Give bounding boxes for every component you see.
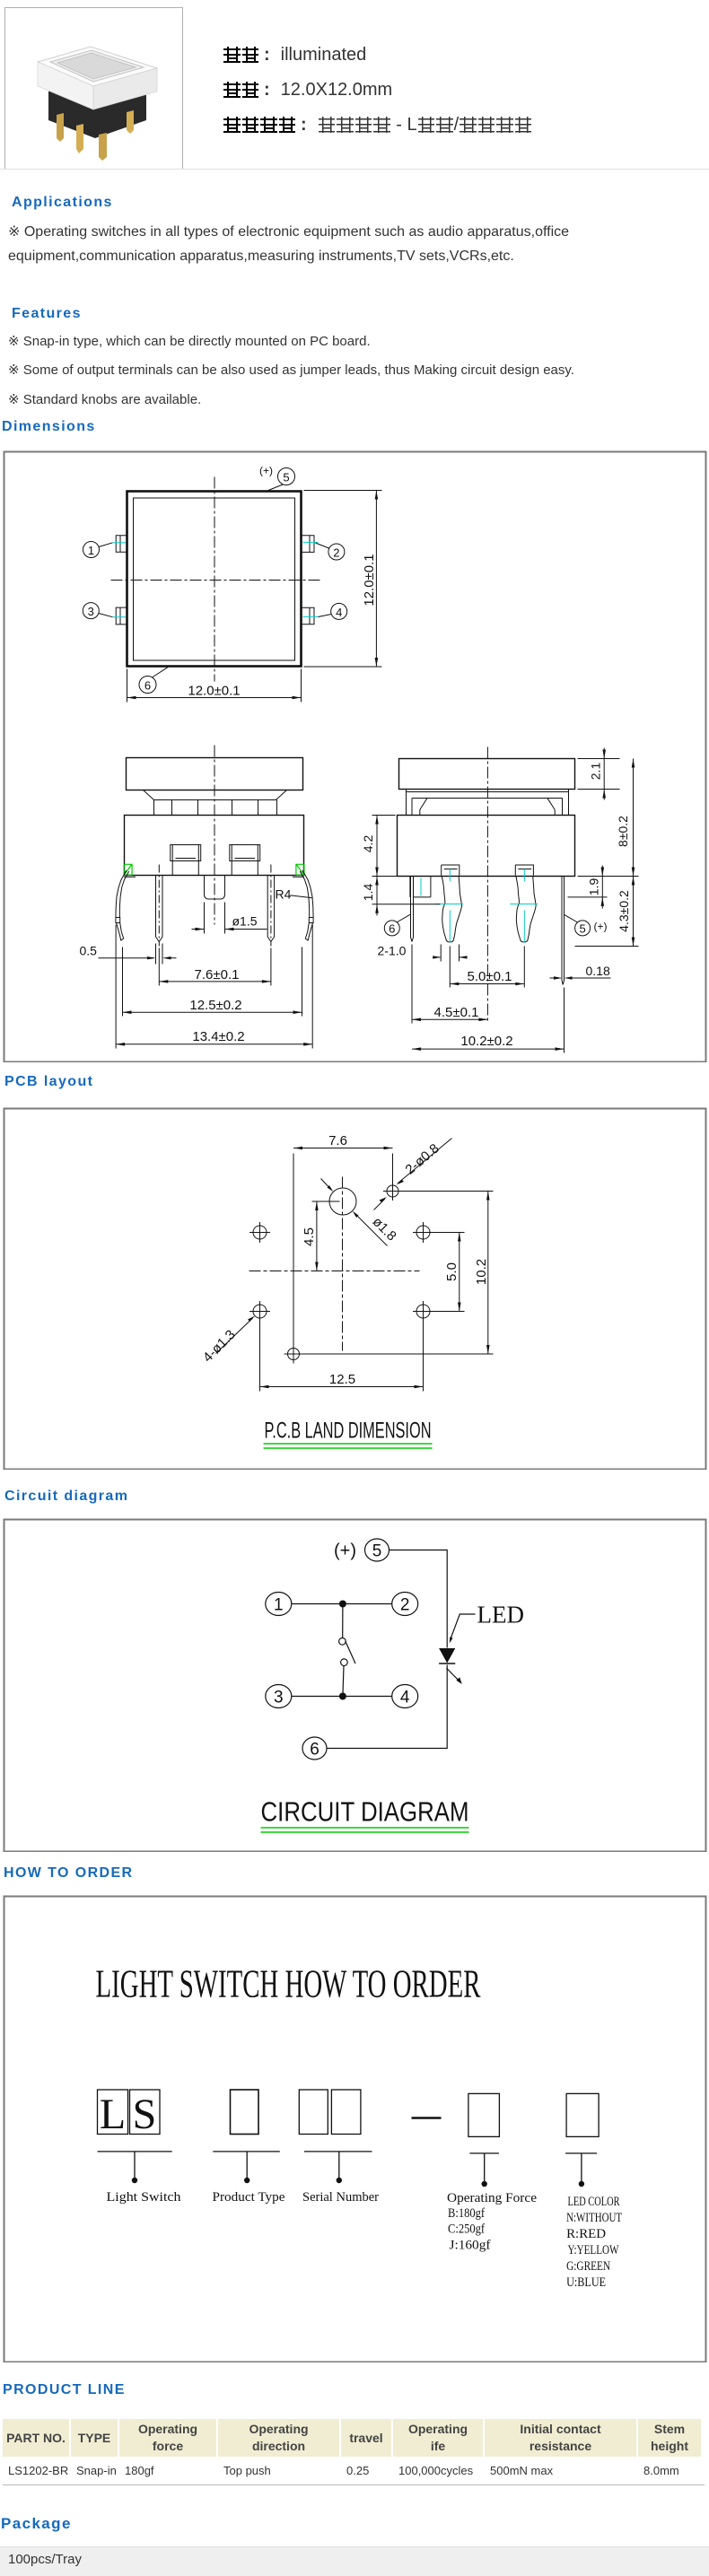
Circuit diagram (4, 1489, 128, 1505)
svg-text:0.18: 0.18 (586, 964, 610, 978)
svg-text:LED COLOR: LED COLOR (568, 2195, 620, 2209)
wire 3-4 (292, 1696, 392, 1698)
dim 12.5±0.2 (122, 947, 124, 1017)
circled 1 (83, 542, 100, 558)
top view outer square (127, 492, 302, 667)
front left claw (116, 870, 127, 918)
dim 12.5 (259, 1320, 261, 1392)
terminal 6 (302, 1737, 327, 1760)
svg-text:4: 4 (400, 1689, 410, 1707)
box operating force (468, 2093, 500, 2136)
front left pin (156, 876, 163, 942)
junction top (339, 1601, 346, 1608)
tab pin3 (116, 607, 127, 624)
svg-text:3: 3 (274, 1689, 284, 1707)
terminal 3 (266, 1685, 292, 1708)
front window left (171, 845, 201, 861)
svg-text:J:160gf: J:160gf (450, 2239, 491, 2253)
switch blade (346, 1641, 355, 1663)
dim 4.5 (312, 1201, 340, 1202)
hole ø1.3 bottom-left (253, 1305, 267, 1318)
svg-text:3: 3 (88, 605, 94, 618)
top view horizontal centerline (111, 580, 321, 581)
dim 1.4 (372, 904, 441, 905)
svg-text:2: 2 (400, 1596, 410, 1615)
tab pin4 (302, 607, 315, 624)
wire 5 to LED branch (390, 1550, 448, 1648)
svg-text:5.0: 5.0 (444, 1262, 460, 1281)
svg-text:B:180gf: B:180gf (448, 2206, 485, 2221)
dim 4.3±0.2 (575, 946, 639, 947)
front view centerline (214, 746, 215, 925)
svg-text:8±0.2: 8±0.2 (616, 816, 630, 847)
product photo box (4, 7, 183, 170)
junction bottom (339, 1693, 346, 1700)
svg-text:2-1.0: 2-1.0 (378, 944, 407, 958)
circled 5 (278, 468, 295, 485)
circled 3 (83, 603, 99, 619)
side view centerline (486, 747, 488, 1024)
dim 4.5±0.1 (411, 945, 413, 1024)
side view cap (399, 759, 575, 790)
side body (398, 816, 575, 877)
bracket led color (565, 2152, 597, 2154)
pins gold (57, 113, 64, 142)
front right pin (267, 876, 274, 942)
svg-text:1: 1 (88, 544, 94, 557)
box product type (231, 2090, 259, 2135)
hole 2-ø0.8 bottom (288, 1349, 300, 1360)
circled 6 (139, 677, 156, 694)
svg-text:Serial Number: Serial Number (302, 2190, 379, 2205)
box led color (566, 2093, 599, 2136)
LED diode (439, 1648, 455, 1663)
bracket serial number (304, 2151, 372, 2152)
svg-text:4.3±0.2: 4.3±0.2 (617, 890, 631, 932)
svg-text:12.0±0.1: 12.0±0.1 (362, 554, 377, 606)
svg-text:Light Switch: Light Switch (107, 2190, 182, 2205)
svg-text:4.5±0.1: 4.5±0.1 (434, 1005, 479, 1020)
order box border (4, 1897, 706, 2362)
bracket operating force (469, 2152, 499, 2154)
dim 2.1 (578, 758, 620, 760)
svg-text:L: L (100, 2091, 126, 2138)
side pin5 wire (562, 877, 565, 985)
dim 13.4±0.2 (115, 925, 117, 1049)
hole 2-ø0.8 top right (387, 1185, 398, 1197)
svg-text:7.6±0.1: 7.6±0.1 (195, 967, 240, 982)
svg-text:ø1.5: ø1.5 (232, 914, 258, 929)
dash separator (412, 2117, 442, 2118)
bracket light switch (98, 2151, 172, 2152)
dim 10.2±0.2 (564, 988, 565, 1053)
top view vertical centerline (214, 477, 215, 682)
svg-text:6: 6 (389, 922, 395, 936)
hole ø1.3 top-left (253, 1226, 267, 1239)
svg-text:N:WITHOUT: N:WITHOUT (566, 2211, 622, 2225)
svg-text:10.2: 10.2 (474, 1259, 489, 1285)
svg-text:7.6: 7.6 (328, 1133, 347, 1148)
svg-text:6: 6 (310, 1741, 319, 1760)
side skirt (407, 790, 569, 816)
svg-text:Product Type: Product Type (213, 2190, 285, 2205)
side snap leg B (515, 865, 533, 876)
svg-text:P.C.B LAND DIMENSION: P.C.B LAND DIMENSION (265, 1419, 432, 1444)
side pin6 wire (411, 877, 414, 942)
svg-text:S: S (133, 2091, 157, 2138)
terminal 5 (365, 1539, 390, 1561)
svg-text:U:BLUE: U:BLUE (566, 2275, 606, 2290)
svg-text:G:GREEN: G:GREEN (566, 2259, 610, 2274)
box serial 2 (331, 2090, 361, 2135)
front view cap (127, 758, 303, 790)
svg-text:CIRCUIT DIAGRAM: CIRCUIT DIAGRAM (261, 1796, 469, 1828)
dim 12.0±0.1 bottom (127, 669, 128, 703)
box L (98, 2090, 128, 2135)
top view inner square (134, 498, 295, 660)
svg-text:5.0±0.1: 5.0±0.1 (468, 969, 512, 984)
dim 7.6 (293, 1154, 294, 1345)
svg-text:4-ø1.3: 4-ø1.3 (200, 1327, 239, 1366)
svg-text:LIGHT SWITCH HOW TO ORDER: LIGHT SWITCH HOW TO ORDER (96, 1962, 481, 2006)
front right claw (302, 870, 313, 918)
terminal 4 (392, 1685, 418, 1708)
svg-text:R:RED: R:RED (566, 2227, 606, 2241)
header separator line (0, 169, 709, 170)
svg-text:4.5: 4.5 (302, 1227, 317, 1246)
hole ø1.3 top-right (416, 1226, 430, 1239)
hole ø1.8 center (329, 1188, 356, 1215)
wire 1-2 (292, 1603, 392, 1605)
dim 5.0±0.1 (449, 947, 451, 988)
LED emission arrow (446, 1668, 460, 1681)
HOW TO ORDER (4, 1865, 134, 1882)
PCB layout (4, 1074, 93, 1090)
svg-text:(+): (+) (259, 465, 273, 477)
front body (125, 816, 304, 876)
svg-text:(+): (+) (594, 921, 608, 933)
leader 2-ø0.8 (398, 1139, 452, 1183)
svg-text:1: 1 (274, 1596, 284, 1615)
switch contact top (342, 1604, 344, 1638)
svg-text:1.4: 1.4 (361, 884, 375, 902)
box serial 1 (299, 2090, 328, 2135)
cap clear (38, 47, 157, 86)
LED leader (451, 1614, 476, 1639)
Features (12, 306, 82, 322)
Applications (12, 195, 113, 211)
circuit box border (4, 1520, 706, 1852)
tab pin1 (116, 536, 127, 553)
leader ø1.8 (321, 1179, 332, 1191)
Dimensions (2, 419, 96, 435)
dim ø1.5 (204, 903, 206, 934)
svg-text:2: 2 (333, 546, 339, 560)
svg-text:ø1.8: ø1.8 (370, 1214, 399, 1244)
dim 8±0.2 (578, 876, 639, 878)
svg-text:5: 5 (283, 471, 289, 485)
svg-text:R4: R4 (276, 887, 292, 902)
svg-text:(+): (+) (334, 1541, 356, 1561)
dim 4.2 (372, 815, 396, 816)
circled 2 (328, 544, 345, 560)
side snap leg A (442, 865, 460, 876)
wire 6 to LED branch (327, 1665, 447, 1749)
svg-text:12.0±0.1: 12.0±0.1 (188, 684, 240, 699)
dim 12.0±0.1 right (304, 490, 382, 492)
dims box border (4, 452, 706, 1062)
svg-text:0.5: 0.5 (80, 944, 98, 958)
green corner mark left (124, 864, 132, 875)
tab pin2 (302, 536, 315, 553)
pcb box border (4, 1109, 706, 1470)
box S (130, 2090, 161, 2135)
circled 5 side (575, 921, 591, 936)
svg-text:5: 5 (579, 922, 585, 936)
leader 4-ø1.3 (216, 1318, 253, 1354)
svg-text:4: 4 (336, 606, 342, 619)
svg-text:1.9: 1.9 (587, 878, 601, 896)
bracket product type (213, 2151, 279, 2152)
side pin6 stub (410, 877, 431, 897)
front window right (230, 845, 260, 861)
svg-text:2.1: 2.1 (589, 763, 603, 781)
circled 4 (331, 603, 347, 619)
switch contact bottom (341, 1659, 348, 1666)
terminal 2 (392, 1593, 418, 1616)
dim 10.2 (400, 1191, 494, 1192)
svg-text:6: 6 (144, 679, 151, 693)
PRODUCT LINE (3, 2382, 126, 2398)
terminal 1 (266, 1593, 292, 1616)
pcb vertical centerline (342, 1177, 344, 1351)
svg-text:10.2±0.2: 10.2±0.2 (460, 1034, 512, 1049)
svg-text:Y:YELLOW: Y:YELLOW (568, 2243, 620, 2257)
svg-text:Operating Force: Operating Force (447, 2191, 537, 2205)
green corner mark right (296, 864, 304, 875)
dim 5.0 (432, 1232, 465, 1234)
dim 7.6±0.1 (158, 948, 160, 986)
hole ø1.3 bottom-right (416, 1305, 430, 1318)
front center stem (205, 876, 225, 899)
front cap slants (144, 790, 287, 800)
svg-text:13.4±0.2: 13.4±0.2 (192, 1029, 244, 1044)
switch body black (48, 79, 146, 138)
circled 6 side (384, 921, 399, 936)
pcb horizontal centerline (249, 1271, 420, 1272)
svg-text:C:250gf: C:250gf (448, 2222, 485, 2237)
Package (1, 2515, 72, 2533)
svg-text:12.5: 12.5 (329, 1372, 355, 1387)
svg-text:LED: LED (477, 1602, 524, 1629)
svg-text:5: 5 (372, 1542, 382, 1561)
front neck (154, 800, 277, 816)
svg-text:12.5±0.2: 12.5±0.2 (189, 998, 241, 1013)
dim 1.9 (568, 896, 608, 898)
svg-text:4.2: 4.2 (361, 835, 375, 853)
svg-text:2-ø0.8: 2-ø0.8 (403, 1141, 442, 1178)
top-right specs (223, 45, 366, 65)
